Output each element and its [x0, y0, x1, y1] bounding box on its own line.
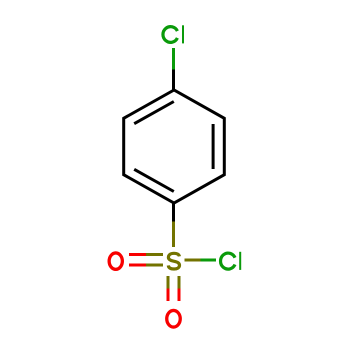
atom O (bottom, double-bonded oxygen) — [167, 310, 181, 327]
bond S-Cl right (single, Cl half green) — [201, 259, 217, 262]
double bond inner line C5=C6 (right edge) — [212, 124, 215, 169]
bond Cl-C1 (single, C half black) — [172, 70, 175, 91]
atom O (left, double-bonded oxygen) — [109, 253, 122, 269]
double bond S=O bottom, S half olive — [168, 276, 179, 289]
benzene ring outline (C1-C6 hexagon) — [124, 90, 225, 203]
atom Cl (top chloro substituent) — [163, 25, 183, 43]
atom Cl (right, sulfonyl chloride) — [221, 252, 241, 270]
bond S-Cl right (single, S half olive) — [185, 259, 201, 262]
double bond S=O bottom, O half red — [168, 289, 179, 302]
bond C4-S (single, S half olive) — [172, 222, 175, 248]
double bond inner line C3=C4 (bottom-left edge) — [134, 169, 174, 191]
double bond S=O left, S half olive — [146, 255, 163, 266]
bond C4-S (single, C half black) — [172, 203, 175, 222]
bond Cl-C1 (single, Cl half green) — [172, 48, 175, 70]
atom S (sulfonyl sulfur) — [168, 253, 179, 269]
double bond S=O left, O half red — [129, 255, 146, 266]
double bond inner line C1=C2 (top-left edge) — [134, 102, 174, 124]
